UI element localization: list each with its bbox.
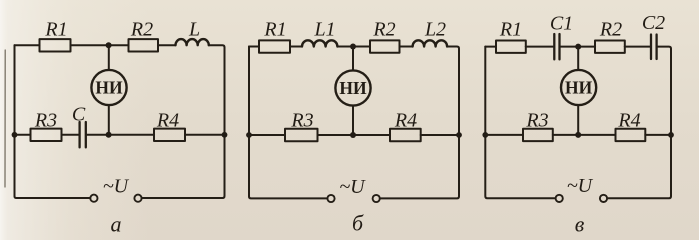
wire: node B down to null indicator bbox=[108, 45, 110, 70]
svg-text:R4: R4 bbox=[617, 110, 640, 132]
junction dot circuit v middle-left bbox=[482, 132, 488, 138]
inductor L1 (circuit b) bbox=[302, 40, 337, 46]
null indicator NI (circuit a) bbox=[91, 70, 126, 105]
svg-text:в: в bbox=[575, 212, 585, 237]
wire: capacitor C to node D through to R4 bbox=[87, 134, 154, 136]
wire: R3 to middle node through to R4 (circuit v) bbox=[553, 134, 616, 136]
source terminal (right, circuit a) bbox=[134, 195, 141, 202]
source terminal (left, circuit a) bbox=[90, 195, 97, 202]
wire: circuit b top-left to R1 bbox=[249, 46, 259, 48]
svg-text:R1: R1 bbox=[44, 18, 67, 40]
resistor R4 (circuit v) bbox=[616, 129, 646, 141]
wire: node down to null indicator (circuit b) bbox=[352, 47, 354, 71]
wire: L2 to top-right corner, right branch down bbox=[380, 47, 459, 199]
wire: circuit a top-left segment to R1 bbox=[15, 44, 40, 46]
svg-text:R1: R1 bbox=[263, 19, 286, 41]
resistor R3 (circuit v) bbox=[523, 129, 553, 141]
middle node junction dot (circuit v) bbox=[575, 132, 581, 138]
svg-text:R2: R2 bbox=[130, 18, 153, 40]
svg-text:НИ: НИ bbox=[95, 78, 123, 98]
svg-text:~U: ~U bbox=[103, 175, 130, 197]
inductor L (circuit a) bbox=[176, 39, 209, 45]
svg-text:НИ: НИ bbox=[339, 78, 367, 98]
svg-text:C2: C2 bbox=[642, 12, 665, 34]
node junction dot (circuit v top) bbox=[575, 44, 581, 50]
null indicator NI (circuit v) bbox=[561, 70, 596, 105]
stray page line (scan artifact) left edge bbox=[4, 50, 6, 187]
resistor R2 (circuit v) bbox=[595, 41, 625, 53]
node A junction dot (circuit a middle-left) bbox=[12, 132, 18, 138]
wire: L1 to node through to R2 bbox=[337, 46, 370, 48]
wire: R3 to middle node through to R4 (circuit b) bbox=[318, 134, 391, 136]
middle node junction dot (circuit b) bbox=[350, 132, 356, 138]
wire: null indicator down to node D bbox=[108, 105, 110, 135]
svg-text:R2: R2 bbox=[372, 19, 395, 41]
wire: R2 to capacitor C2 (circuit v) bbox=[625, 46, 650, 48]
wire: R4 to right branch (circuit b) bbox=[421, 134, 459, 136]
svg-text:б: б bbox=[352, 211, 364, 236]
wire: R1 to inductor L1 bbox=[290, 46, 302, 48]
svg-text:L1: L1 bbox=[313, 19, 335, 41]
wire: R3 to capacitor C bbox=[62, 134, 79, 136]
svg-text:R3: R3 bbox=[34, 109, 57, 131]
wire: C1 to node through to R2 (circuit v) bbox=[561, 46, 595, 48]
resistor R1 (circuit v) bbox=[496, 41, 526, 53]
resistor R3 (circuit b) bbox=[285, 129, 318, 141]
source terminal (right, circuit b) bbox=[373, 195, 380, 202]
wire: circuit a left branch (top-left corner down to bottom wire) bbox=[15, 45, 91, 198]
svg-text:L: L bbox=[188, 18, 200, 40]
wire: R4 to right branch bbox=[185, 134, 225, 136]
wire: circuit v left branch (top corner to bottom wire) bbox=[485, 47, 555, 199]
capacitor C1 (circuit v) bbox=[554, 34, 559, 59]
wire: inductor L to top-right corner, right branch down bbox=[142, 45, 225, 198]
svg-text:R3: R3 bbox=[525, 110, 548, 132]
wire: node A to R3 bbox=[15, 134, 31, 136]
wire: R1 to capacitor C1 bbox=[526, 46, 553, 48]
svg-text:~U: ~U bbox=[339, 176, 366, 198]
wire: left branch to R3 (circuit b) bbox=[249, 134, 285, 136]
wire: R2 to inductor L2 bbox=[400, 46, 413, 48]
resistor R2 (circuit a) bbox=[129, 39, 159, 51]
capacitor C (circuit a) bbox=[80, 122, 86, 147]
svg-text:L2: L2 bbox=[424, 19, 446, 41]
wire: node down to null indicator (circuit v) bbox=[577, 47, 579, 70]
resistor R1 (circuit b) bbox=[259, 40, 290, 52]
wire: circuit v top-left to R1 bbox=[485, 46, 496, 48]
capacitor C2 (circuit v) bbox=[651, 35, 657, 60]
node B junction dot (circuit a top) bbox=[106, 42, 112, 48]
resistor R4 (circuit a) bbox=[154, 129, 185, 141]
resistor R2 (circuit b) bbox=[370, 40, 400, 52]
wire: circuit b left branch (top corner to bottom wire) bbox=[249, 47, 327, 199]
source terminal (left, circuit b) bbox=[327, 195, 334, 202]
junction dot circuit a middle-right bbox=[222, 132, 228, 138]
source terminal (right, circuit v) bbox=[600, 195, 607, 202]
resistor R1 (circuit a) bbox=[40, 39, 71, 51]
wire: R1 to node B through to R2 bbox=[71, 44, 129, 46]
node D junction dot (circuit a middle) bbox=[106, 132, 112, 138]
wire: R2 to inductor L bbox=[158, 44, 176, 46]
wire: C2 to top-right corner, right branch down (circuit v) bbox=[607, 47, 671, 199]
svg-text:~U: ~U bbox=[567, 175, 594, 197]
wire: null indicator down to middle node (circuit v) bbox=[577, 105, 579, 135]
svg-text:R4: R4 bbox=[156, 109, 179, 131]
svg-text:R1: R1 bbox=[499, 19, 522, 41]
junction dot circuit b middle-right bbox=[456, 132, 462, 138]
svg-text:C1: C1 bbox=[550, 13, 573, 35]
svg-text:а: а bbox=[111, 212, 122, 237]
svg-text:C: C bbox=[72, 104, 86, 126]
null indicator NI (circuit b) bbox=[335, 70, 370, 105]
source terminal (left, circuit v) bbox=[556, 195, 563, 202]
wire: null indicator down to middle node (circuit b) bbox=[352, 106, 354, 135]
wire: left branch to R3 (circuit v) bbox=[485, 134, 523, 136]
junction dot circuit v middle-right bbox=[668, 132, 674, 138]
svg-text:R2: R2 bbox=[599, 19, 622, 41]
resistor R4 (circuit b) bbox=[390, 129, 421, 141]
junction dot circuit b middle-left bbox=[246, 132, 252, 138]
svg-text:R3: R3 bbox=[290, 110, 313, 132]
wire: R4 to right branch (circuit v) bbox=[645, 134, 671, 136]
resistor R3 (circuit a) bbox=[31, 129, 62, 141]
svg-text:R4: R4 bbox=[394, 110, 417, 132]
svg-text:НИ: НИ bbox=[565, 78, 593, 98]
inductor L2 (circuit b) bbox=[413, 40, 448, 46]
node junction dot (circuit b top) bbox=[350, 44, 356, 50]
